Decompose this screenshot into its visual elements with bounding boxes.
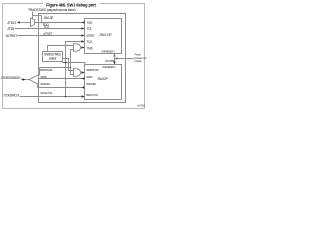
- arrow SWCLKTCK in: [82, 95, 85, 97]
- svg-text:TRACESWO (asynchronous trace): TRACESWO (asynchronous trace): [28, 8, 76, 12]
- wire TDO tap vertical: [41, 16, 43, 23]
- SWJ-DP outer box: [39, 14, 126, 103]
- wire SWDOEN: [38, 84, 85, 87]
- pin NJTRST label: [6, 34, 17, 38]
- svg-text:SWDO: SWDO: [40, 75, 47, 79]
- label TDI: [44, 25, 49, 29]
- svg-text:JTCK/SWCLK: JTCK/SWCLK: [3, 93, 20, 97]
- wire TCK from SWCLK bus: [66, 42, 85, 97]
- svg-text:SWDOEN: SWDOEN: [86, 82, 96, 86]
- arrow nTRST in: [82, 34, 85, 36]
- JTAG-DP U1 box: [85, 19, 122, 54]
- svg-text:DAPRESETn: DAPRESETn: [103, 65, 116, 69]
- figure title: [43, 1, 99, 8]
- junction TMS data: [70, 67, 72, 69]
- wire select top out to G1: [48, 46, 74, 52]
- svg-text:SWDOEN: SWDOEN: [40, 82, 50, 86]
- JTAG-DP pin TCK label: [87, 40, 94, 44]
- arrow TDO out: [81, 21, 84, 23]
- svg-text:TDI: TDI: [44, 25, 49, 29]
- label SWDO: [40, 75, 47, 79]
- pin JTMS/SWDIO label: [1, 76, 26, 80]
- gate G2 SWDITMS: [74, 69, 81, 77]
- mux M1 TDO/TRACESWO: [31, 18, 35, 26]
- wire NJTRST nTRST: [17, 35, 84, 37]
- label From power-on reset: [135, 53, 147, 64]
- JTAG-DP pin TMS label: [87, 47, 93, 51]
- pad driver Q1 triangle: [29, 75, 39, 85]
- svg-text:JTMS/SWDIO: JTMS/SWDIO: [1, 76, 21, 80]
- svg-text:NJTRST: NJTRST: [6, 34, 17, 38]
- junction TDO tap: [41, 22, 43, 24]
- arrow nPOTRST into vertical: [115, 57, 118, 59]
- svg-text:Figure 466. SWJ debug port: Figure 466. SWJ debug port: [46, 2, 96, 7]
- svg-text:nTRST: nTRST: [87, 34, 95, 38]
- JTAG-DP pin TDI label: [87, 27, 92, 31]
- gate G1 TMS: [74, 44, 81, 51]
- arrow SWDO out: [81, 77, 84, 79]
- svg-text:SWDITMS: SWDITMS: [86, 68, 99, 72]
- label SWDOEN: [40, 82, 50, 86]
- svg-text:reset: reset: [135, 59, 142, 63]
- wire select out2 to G2: [63, 59, 74, 71]
- SW-DP pin SWDO label: [86, 75, 93, 79]
- svg-text:TDO: TDO: [87, 21, 93, 25]
- svg-text:SW-DP: SW-DP: [98, 77, 109, 81]
- wire TRACESWO vertical: [32, 12, 34, 20]
- label SWCLKTCK: [40, 91, 52, 95]
- JTAG-DP pin TDO label: [87, 21, 93, 25]
- pin JTDO label: [7, 21, 20, 25]
- wire TDO: [35, 22, 85, 24]
- wire JTDO to mux: [20, 22, 31, 24]
- SWJ-DP label: [44, 16, 54, 20]
- svg-text:JTDI: JTDI: [7, 27, 14, 31]
- arrow TCK in: [82, 40, 85, 42]
- svg-text:SWCLKTCK: SWCLKTCK: [40, 91, 52, 95]
- wire SWCLKTCK: [20, 96, 85, 98]
- arrow SWDITMS in: [82, 71, 85, 73]
- arrow nPOTRST up into JTAG-DP: [113, 54, 115, 57]
- pin DAPRESETn SW-DP label: [103, 65, 116, 69]
- wire JTDI TDI: [15, 28, 85, 30]
- label nPOTRST: [105, 59, 116, 63]
- arrow TDI in: [82, 27, 85, 29]
- wire SWDITMS jog to G2: [71, 68, 74, 75]
- svg-text:ai14996: ai14996: [137, 103, 145, 107]
- arrow TMS in: [82, 46, 85, 48]
- junction bus select: [65, 62, 67, 64]
- wire G2 out to SWDITMS pin: [81, 72, 85, 74]
- svg-text:SWCLKTCK: SWCLKTCK: [86, 93, 98, 97]
- pin JTCK/SWCLK label: [3, 93, 20, 97]
- svg-text:nTRST: nTRST: [44, 32, 53, 36]
- node TRACESWO label: [28, 8, 76, 12]
- svg-text:SWDO: SWDO: [86, 75, 93, 79]
- label TDO: [43, 23, 49, 27]
- svg-text:select: select: [49, 56, 57, 60]
- SW-DP pin SWDITMS label: [86, 68, 99, 72]
- wire nPOTRST horizontal from right: [115, 58, 134, 60]
- svg-text:JTDO: JTDO: [7, 21, 17, 25]
- svg-text:TCK: TCK: [87, 40, 94, 44]
- wire SWDITMS row: [40, 67, 71, 69]
- svg-text:TDI: TDI: [87, 27, 92, 31]
- pin JTDI label: [7, 27, 14, 31]
- wire nPOTRST vertical: [114, 54, 116, 65]
- junction SWCLK bus: [65, 96, 67, 98]
- svg-text:SWJ-DP: SWJ-DP: [44, 16, 54, 20]
- wire TMS data to G1: [71, 50, 74, 68]
- SW-DP pin SWCLKTCK label: [86, 93, 98, 97]
- wire G1 out to TMS: [81, 47, 85, 49]
- label nTRST: [44, 32, 53, 36]
- pin DAPRESETn JTAG-DP label: [102, 49, 115, 53]
- wire JTMS/SWDIO to pad: [25, 79, 29, 81]
- wire tee up from pad to SWDITMS: [39, 68, 41, 76]
- arrow SWDOEN out: [81, 86, 84, 88]
- svg-text:DAPRESETn: DAPRESETn: [102, 49, 115, 53]
- SWD/JTAG select box U3: [43, 52, 63, 62]
- SW-DP U2 box: [85, 65, 122, 100]
- svg-text:TMS: TMS: [87, 47, 93, 51]
- figure frame: [3, 4, 145, 109]
- svg-text:JTAG-DP: JTAG-DP: [99, 33, 112, 37]
- wire TDO tap horizontal: [33, 15, 42, 17]
- svg-text:SWDITMS: SWDITMS: [40, 68, 53, 72]
- label SWDITMS: [40, 68, 53, 72]
- wire SWDO: [39, 78, 85, 80]
- figure id ai14996: [137, 103, 145, 107]
- SW-DP pin SWDOEN label: [86, 82, 96, 86]
- arrow nPOTRST down into SW-DP: [113, 62, 115, 65]
- JTAG-DP pin nTRST label: [87, 34, 95, 38]
- wire select to SW-DP top: [63, 63, 85, 65]
